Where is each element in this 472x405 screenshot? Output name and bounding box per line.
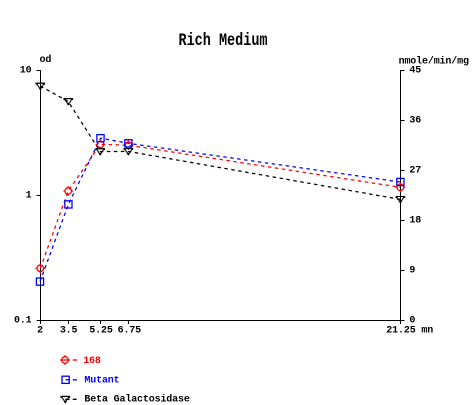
svg-text:168: 168 [83,356,101,367]
svg-text:Mutant: Mutant [84,376,119,387]
svg-text:Rich Medium: Rich Medium [178,30,267,50]
svg-text:0: 0 [409,315,415,326]
series line: 168 (red dashed) [40,144,400,268]
svg-text:21.25 mn: 21.25 mn [386,325,433,336]
svg-text:3.5: 3.5 [60,325,78,336]
axes [37,70,405,324]
red circle markers [36,264,46,274]
series line: Mutant (blue dashed) [40,138,400,281]
svg-text:0.1: 0.1 [14,315,32,326]
svg-text:1: 1 [26,190,32,201]
svg-text:36: 36 [409,115,421,126]
legend row 2: Mutant [62,376,120,387]
blue square markers [36,278,43,285]
svg-text:9: 9 [409,265,415,276]
svg-text:10: 10 [20,65,32,76]
black triangle markers [36,83,45,90]
svg-text:Beta Galactosidase: Beta Galactosidase [84,394,189,405]
legend row 1: 168 [60,355,101,367]
svg-text:45: 45 [409,65,421,76]
svg-text:6.75: 6.75 [118,325,142,336]
svg-text:5.25: 5.25 [89,325,113,336]
svg-text:18: 18 [409,215,421,226]
svg-text:od: od [40,54,52,66]
series line: Beta Galactosidase (black dashed) [40,86,400,199]
svg-text:27: 27 [409,165,421,176]
title [178,30,267,50]
svg-text:2: 2 [37,325,43,336]
legend row 3: Beta Galactosidase [61,394,190,405]
